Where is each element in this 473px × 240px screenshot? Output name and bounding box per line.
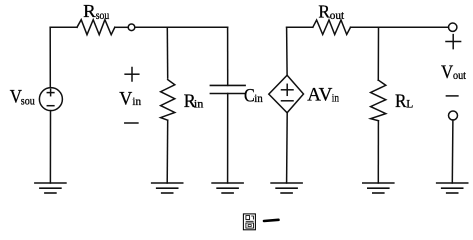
label V_in [119,89,141,110]
label C_in [244,85,263,106]
label R_L [395,91,413,112]
svg-text:L: L [406,97,413,111]
svg-text:AV: AV [307,85,332,106]
terminal: V_out + (open circle) [449,23,457,31]
capacitor C_in [210,85,245,93]
resistor R_in [161,80,175,121]
wire: dependent source top vertical [286,27,289,75]
svg-text:in: in [132,94,141,108]
label: V_in plus sign [125,68,139,82]
svg-text:sou: sou [96,10,110,22]
svg-text:C: C [244,85,255,106]
svg-text:R: R [318,1,330,21]
wire: lower terminal to ground [451,120,454,183]
caption: 圖 (figure) drawn glyph [243,214,255,230]
ground (below V_out terminal) [437,183,468,193]
svg-text:V: V [119,89,132,110]
label R_out [318,1,345,22]
ground (below R_in) [152,183,183,193]
wire: R_in bottom to ground [166,120,169,183]
ground (below C_in) [212,183,243,193]
svg-text:R: R [83,1,96,21]
label V_out [441,62,467,83]
terminal: V_out - (open circle) [449,111,458,120]
wire: R_sou to node circle [115,26,129,28]
caption: 一 (one) drawn stroke [264,220,279,221]
svg-text:in: in [194,97,204,111]
label R_in [184,91,204,112]
label R_sou [83,1,109,22]
svg-text:in: in [332,90,339,104]
wire: C_in bottom to ground [227,94,229,184]
wire: node circle to C_in top corner [135,26,228,28]
wire: R_out to V_out terminal [351,26,449,28]
label V_sou [10,86,35,107]
ground (below R_L) [363,183,394,193]
label: V_in minus sign [125,122,138,124]
svg-text:out: out [453,70,467,82]
wire: dependent source bottom to ground [286,113,289,183]
resistor R_sou [77,20,115,35]
voltage source V_sou [39,88,62,111]
wire: top-right horizontal to R_out [287,26,313,28]
ground (below AV_in) [271,183,302,193]
label AV_in [307,85,339,106]
svg-text:V: V [441,62,453,83]
wire: top-left horizontal to R_sou [50,26,77,28]
resistor R_out [313,20,351,35]
wire: V_sou bottom to ground [49,111,51,183]
wire: R_L top connection [377,27,379,80]
ground (below V_sou) [35,183,66,193]
dependent source AV_in (diamond) [269,75,304,113]
wire: top-left vertical from corner to V_sou top [49,27,51,87]
label: V_out minus sign [446,95,458,97]
svg-text:out: out [330,10,345,22]
resistor R_L [371,80,386,121]
svg-text:R: R [395,91,407,112]
wire: C_in top vertical [227,27,229,85]
svg-text:sou: sou [21,94,35,108]
wire: R_L bottom to ground [377,121,379,183]
node: open terminal circle after R_sou [128,24,135,31]
svg-text:in: in [254,91,263,105]
label: V_out plus sign [446,35,461,49]
wire: R_in top connection [166,27,168,78]
